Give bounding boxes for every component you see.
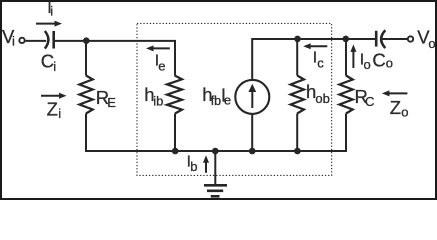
svg-text:e: e xyxy=(158,59,165,74)
svg-text:i: i xyxy=(58,106,61,121)
svg-text:C: C xyxy=(372,49,385,70)
svg-text:C: C xyxy=(41,51,54,72)
svg-text:b: b xyxy=(190,159,197,174)
svg-text:fb: fb xyxy=(211,94,221,108)
svg-text:o: o xyxy=(401,105,408,120)
svg-text:i: i xyxy=(53,59,56,74)
svg-text:i: i xyxy=(50,4,53,19)
svg-text:C: C xyxy=(365,94,374,109)
svg-text:c: c xyxy=(317,56,324,71)
svg-text:i: i xyxy=(12,34,15,49)
svg-text:e: e xyxy=(224,92,231,107)
svg-text:o: o xyxy=(364,57,371,72)
svg-text:Z: Z xyxy=(390,97,401,118)
svg-text:Z: Z xyxy=(47,99,58,120)
svg-text:o: o xyxy=(386,56,393,71)
svg-text:o: o xyxy=(428,36,435,51)
svg-text:ib: ib xyxy=(153,94,163,109)
svg-text:ob: ob xyxy=(315,91,329,106)
svg-text:E: E xyxy=(107,95,116,110)
